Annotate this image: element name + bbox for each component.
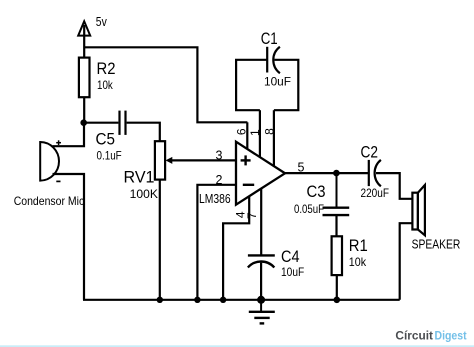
svg-text:R1: R1: [349, 236, 368, 255]
logo CircuitDigest: [395, 330, 466, 342]
wire node to C5: [84, 122, 118, 124]
pin 8 wire: [273, 110, 275, 166]
svg-text:8: 8: [262, 128, 276, 135]
wire 5v rail to pin 6: [84, 47, 247, 122]
wire pin 2 to ground rail: [197, 185, 236, 300]
wire mic plus terminal: [53, 124, 85, 146]
pin 4 wire to ground rail: [223, 196, 249, 300]
svg-text:LM386: LM386: [199, 192, 231, 206]
junction C4 and ground: [257, 296, 265, 304]
wire C5 to RV1 top: [127, 123, 160, 142]
svg-text:C4: C4: [281, 247, 300, 266]
junction RV1 and rail: [157, 297, 163, 303]
pin 6 wire: [246, 122, 248, 149]
op-amp U1 LM386 triangle: [236, 142, 285, 205]
svg-text:Digest: Digest: [435, 330, 467, 342]
svg-text:3: 3: [216, 149, 223, 163]
svg-text:5: 5: [298, 161, 305, 175]
wire pin 1 to C1: [236, 60, 267, 110]
svg-text:2: 2: [216, 173, 223, 187]
wire C3 to R1: [335, 215, 337, 236]
svg-text:1: 1: [248, 129, 262, 136]
power 5v symbol: [78, 21, 90, 57]
resistor R2: [79, 58, 90, 123]
node junction dot R2/C5/mic: [80, 119, 87, 126]
svg-text:R2: R2: [97, 59, 116, 78]
svg-text:0.05uF: 0.05uF: [294, 202, 324, 216]
svg-text:C5: C5: [96, 130, 116, 149]
potentiometer RV1: [155, 141, 172, 179]
svg-text:C3: C3: [307, 182, 326, 201]
svg-text:0.1uF: 0.1uF: [97, 149, 122, 163]
svg-text:SPEAKER: SPEAKER: [412, 237, 461, 251]
ground rail wire: [83, 299, 400, 301]
resistor R1: [332, 236, 342, 299]
wire mic minus terminal to ground rail: [53, 174, 85, 300]
capacitor C5: [120, 111, 126, 135]
wire C1 to pin 8: [274, 60, 298, 110]
wire pin 5 output to C2: [285, 172, 369, 174]
svg-text:6: 6: [235, 128, 249, 135]
capacitor C4: [248, 255, 275, 299]
wire RV1 bottom to ground rail: [159, 180, 161, 300]
svg-text:C1: C1: [261, 29, 278, 48]
capacitor C1: [267, 47, 280, 73]
wire wiper to pin 3: [172, 159, 237, 161]
ground symbol: [249, 300, 275, 324]
svg-text:10uF: 10uF: [281, 265, 304, 279]
svg-text:7: 7: [245, 212, 259, 219]
svg-text:5v: 5v: [96, 15, 108, 29]
svg-text:100K: 100K: [130, 187, 158, 201]
svg-text:RV1: RV1: [124, 168, 155, 187]
junction R1 and rail: [334, 297, 341, 304]
capacitor C2: [369, 160, 381, 186]
svg-text:Círcuit: Círcuit: [395, 330, 433, 342]
wire speaker minus to ground rail: [400, 223, 413, 300]
svg-text:10k: 10k: [97, 78, 114, 92]
pin 1 wire: [259, 110, 261, 157]
speaker LS1: [412, 185, 425, 235]
svg-text:C2: C2: [361, 143, 379, 162]
bottom border line: [0, 345, 474, 347]
wire C2 to speaker plus: [376, 173, 412, 199]
svg-text:220uF: 220uF: [361, 186, 390, 200]
mic minus sign: [56, 180, 60, 182]
junction pin2 and rail: [194, 297, 200, 303]
capacitor C3: [323, 176, 350, 215]
node output junction dot: [333, 170, 340, 177]
mic plus sign: [56, 140, 61, 145]
junction pin4 and rail: [220, 297, 226, 303]
svg-text:Condensor Mic: Condensor Mic: [14, 194, 85, 208]
condenser mic MK1: [40, 142, 59, 181]
svg-text:10uF: 10uF: [264, 75, 291, 89]
pin 7 wire to C4: [260, 189, 262, 256]
svg-text:10k: 10k: [349, 255, 367, 269]
